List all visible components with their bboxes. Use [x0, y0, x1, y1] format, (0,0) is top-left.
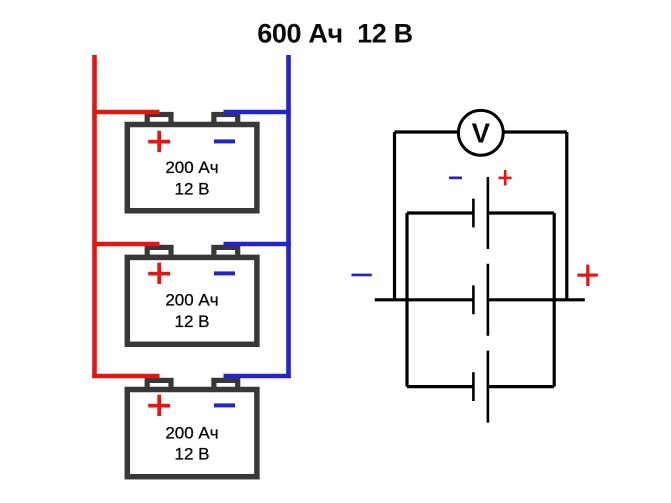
wire red branch battery3 [92, 374, 159, 379]
node plus terminal (right) [577, 265, 597, 286]
voltmeter V1 circle [458, 110, 503, 155]
svg-text:12 В: 12 В [175, 445, 210, 464]
battery GB2 terminal - [214, 247, 238, 257]
node minus small (top cell) [449, 177, 462, 180]
wire inner top right segment [488, 211, 554, 214]
svg-text:V: V [472, 117, 491, 148]
wire blue branch battery3 [224, 374, 291, 379]
wire middle left segment [375, 298, 474, 301]
wire left outer vertical [393, 132, 396, 300]
cell G3 long plate [487, 351, 490, 423]
wire inner top left segment [407, 211, 473, 214]
cell G3 short plate [472, 372, 475, 401]
battery GB1 terminal - [214, 115, 238, 125]
svg-text:200 Ач: 200 Ач [165, 423, 218, 442]
wire inner left vertical [405, 213, 408, 387]
battery GB1 minus mark [214, 139, 235, 143]
svg-text:200 Ач: 200 Ач [165, 291, 218, 310]
wire inner right vertical [553, 213, 556, 387]
wire red bus vertical [92, 55, 97, 378]
battery GB1 case [127, 125, 257, 211]
wire blue branch battery1 [224, 110, 291, 115]
node minus terminal (left) [352, 274, 372, 277]
schematic wires black [375, 132, 585, 423]
wire blue bus vertical [286, 55, 291, 378]
svg-text:200 Ач: 200 Ач [165, 158, 218, 177]
battery GB3 minus mark [214, 403, 235, 407]
wire voltmeter top [395, 130, 567, 133]
battery GB1 terminal + [147, 115, 171, 125]
battery GB3 terminal - [214, 380, 238, 390]
battery GB2 plus mark [148, 263, 170, 284]
wire middle right segment [488, 298, 585, 301]
svg-text:12 В: 12 В [175, 312, 210, 331]
svg-text:600 Ач 12 В: 600 Ач 12 В [257, 19, 413, 49]
wire inner bottom left segment [407, 385, 473, 388]
wire blue branch battery2 [224, 242, 291, 247]
svg-text:12 В: 12 В [175, 179, 210, 198]
battery GB3 terminal + [147, 380, 171, 390]
cell G2 long plate [487, 264, 490, 336]
wire red branch battery2 [92, 242, 159, 247]
battery GB2 minus mark [214, 271, 235, 275]
battery GB1 plus mark [148, 131, 170, 152]
cell G1 long plate [487, 177, 490, 249]
wire right outer vertical [565, 132, 568, 300]
node plus small (top cell) [499, 170, 512, 185]
wire inner bottom right segment [488, 385, 554, 388]
cell G1 short plate [472, 199, 475, 228]
wire red branch battery1 [92, 110, 159, 115]
battery GB2 terminal + [147, 247, 171, 257]
cell G2 short plate [472, 285, 475, 314]
battery GB3 plus mark [148, 395, 170, 416]
battery GB2 case [127, 257, 257, 344]
battery GB3 case [127, 390, 257, 477]
